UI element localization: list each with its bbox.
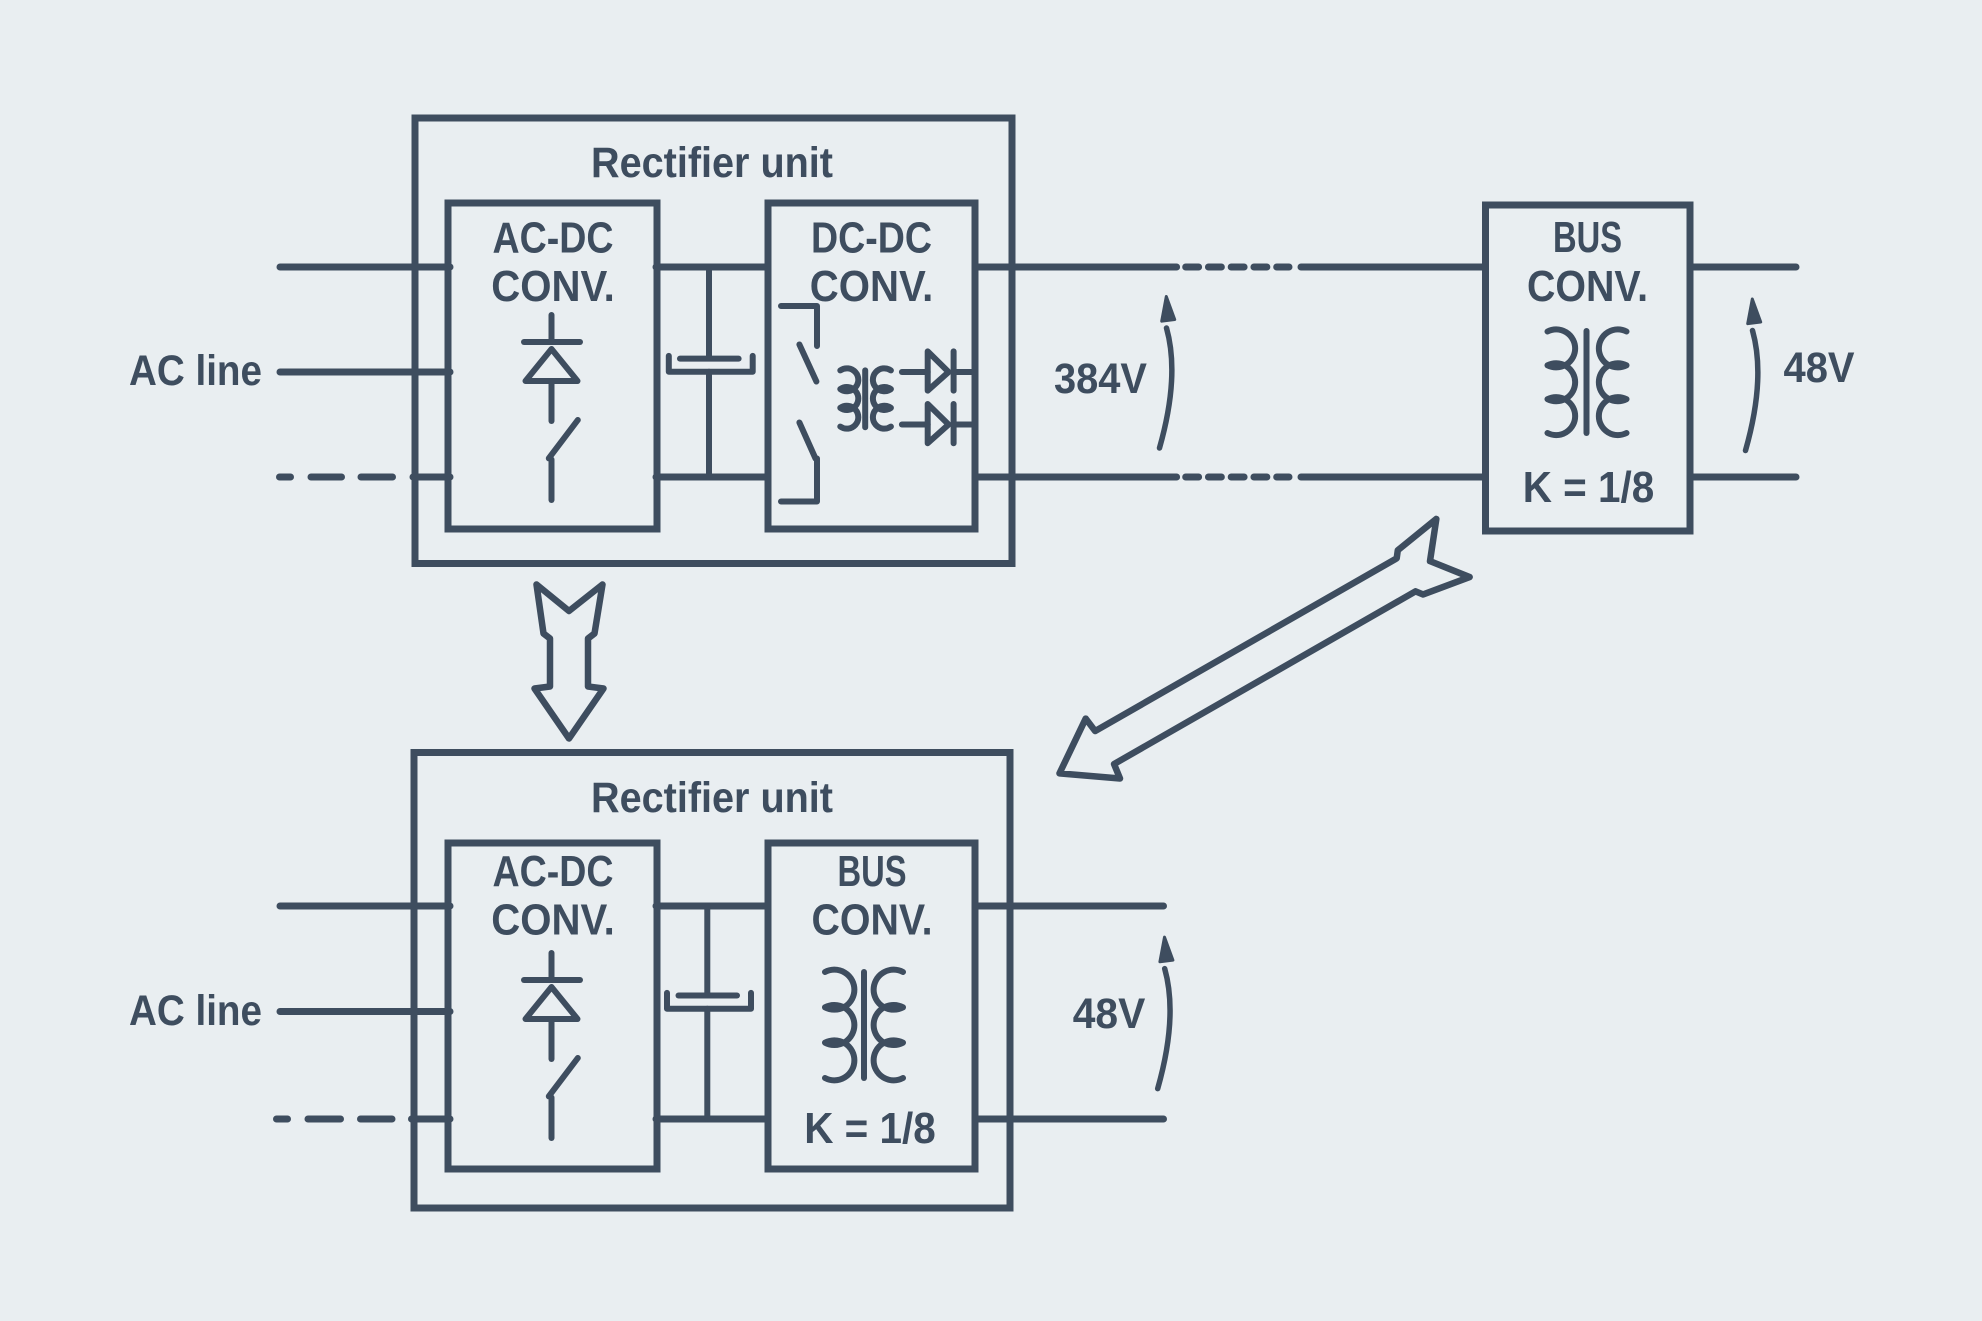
diode D1: triangle	[526, 349, 578, 381]
svg-text:48V: 48V	[1073, 990, 1146, 1038]
wire: 48V output bottom (top diagram)	[1690, 474, 1796, 481]
wire: DC link bottom (between converters, top)	[656, 474, 768, 481]
svg-text:384V: 384V	[1054, 355, 1147, 403]
svg-text:Rectifier unit: Rectifier unit	[591, 774, 833, 822]
wire: AC input phase 1 (bottom diagram)	[280, 903, 450, 910]
svg-text:K = 1/8: K = 1/8	[804, 1104, 936, 1153]
switch S4 blade (AC-DC bottom)	[549, 1058, 578, 1096]
diode D4: triangle	[526, 987, 578, 1019]
svg-text:CONV.: CONV.	[491, 262, 615, 311]
svg-text:AC-DC: AC-DC	[493, 847, 614, 896]
capacitor C1: lower wire	[706, 372, 712, 477]
box: DC-DC converter (top)	[768, 203, 975, 529]
diode D2: cathode lead	[954, 369, 972, 375]
wire: 48V output bottom (bottom diagram)	[975, 1116, 1164, 1123]
arrow: outline diagonal arrow from bus converter to bottom rectifier	[1042, 518, 1470, 803]
diode D3: cathode bar	[951, 404, 957, 443]
wire: 384V bus bottom to bus converter	[1301, 474, 1486, 481]
svg-text:Rectifier unit: Rectifier unit	[591, 139, 833, 187]
wire: DC link top (between converters, top)	[656, 264, 768, 271]
transformer T2 primary winding	[1548, 329, 1576, 435]
svg-text:CONV.: CONV.	[1527, 262, 1648, 311]
wire: 384V bus bottom dashed	[1186, 474, 1289, 481]
wire: DC link bottom (between converters, bottom)	[656, 1116, 768, 1123]
wire: AC input phase n dashed (bottom diagram)	[277, 1116, 451, 1123]
diode D2 (rectifier top): anode lead	[902, 369, 928, 375]
arrow: outline down arrow between rectifier units	[535, 585, 604, 739]
switch S2 upper lead with corner	[781, 306, 817, 346]
wire: 384V bus top to bus converter	[1301, 264, 1486, 271]
svg-text:BUS: BUS	[838, 847, 907, 896]
arrow: 384V voltage arrow	[1160, 297, 1175, 449]
diode D3: cathode lead	[954, 422, 972, 428]
wire: AC input phase 1 (top diagram)	[280, 264, 450, 271]
transformer T1 secondary winding	[873, 368, 891, 428]
wire: 384V bus top solid (top)	[975, 264, 1177, 271]
svg-text:K = 1/8: K = 1/8	[1523, 463, 1655, 512]
svg-text:DC-DC: DC-DC	[811, 214, 932, 263]
wire: 384V bus bottom solid (top)	[975, 474, 1177, 481]
arrow: 48V voltage arrow (top)	[1746, 299, 1761, 451]
diode D4 with switch (AC-DC bottom): top lead	[549, 953, 555, 979]
svg-text:AC line: AC line	[129, 347, 262, 395]
diode D1: cathode bar	[524, 339, 580, 345]
transformer T1 primary winding	[840, 368, 858, 428]
switch S3 lower lead with corner	[781, 459, 817, 502]
capacitor C2 (bottom): upper wire	[704, 906, 710, 993]
capacitor C1: top plate	[680, 356, 739, 362]
transformer T3 core	[861, 972, 867, 1078]
switch S1 blade (AC-DC top)	[549, 420, 578, 458]
transformer T3 primary winding	[825, 970, 854, 1081]
wire: diode to switch	[549, 383, 555, 421]
capacitor C2: bottom bracket plate	[667, 993, 751, 1009]
diode D3 (rectifier bottom): anode lead	[902, 422, 928, 428]
capacitor C1: bottom bracket plate	[669, 356, 753, 372]
transformer T2 secondary winding	[1599, 329, 1627, 435]
svg-text:CONV.: CONV.	[491, 896, 615, 945]
diode D3: triangle	[928, 404, 949, 443]
wire: 48V output top (top diagram)	[1690, 264, 1796, 271]
wire: DC link top (between converters, bottom)	[656, 903, 768, 910]
svg-text:BUS: BUS	[1553, 213, 1622, 262]
arrow: 48V voltage arrow (bottom)	[1158, 937, 1173, 1089]
diode D1 with switch (AC-DC top): top lead	[549, 315, 555, 341]
svg-text:CONV.: CONV.	[810, 262, 934, 311]
outer box: rectifier unit (top)	[415, 118, 1012, 564]
wire: switch lower lead	[549, 460, 555, 501]
wire: switch lower lead (bottom)	[549, 1098, 555, 1139]
wire: 384V bus top dashed	[1186, 264, 1289, 271]
svg-text:CONV.: CONV.	[812, 896, 933, 945]
diode D4: cathode bar	[524, 977, 580, 983]
transformer T2 core	[1584, 331, 1590, 433]
box: AC-DC converter (bottom)	[448, 843, 657, 1169]
box: BUS converter (top right)	[1486, 205, 1691, 531]
svg-text:AC-DC: AC-DC	[493, 214, 614, 263]
wire: diode to switch (bottom)	[549, 1021, 555, 1059]
diode D2: cathode bar	[951, 351, 957, 390]
svg-text:48V: 48V	[1784, 344, 1855, 392]
capacitor C1 (top): upper wire	[706, 267, 712, 356]
transformer T1 core	[862, 370, 868, 427]
transformer T3 secondary winding	[874, 970, 903, 1081]
outer box: rectifier unit (bottom)	[414, 753, 1010, 1209]
wire: AC input phase n dashed (top diagram)	[280, 474, 451, 481]
svg-text:AC line: AC line	[129, 987, 262, 1035]
capacitor C2: lower wire	[704, 1009, 710, 1119]
box: BUS converter (bottom)	[768, 843, 975, 1169]
switch S2 blade upper	[799, 345, 816, 382]
box: AC-DC converter (top)	[448, 203, 657, 529]
wire: 48V output top (bottom diagram)	[975, 903, 1164, 910]
capacitor C2: top plate	[679, 993, 738, 999]
switch S3 blade lower	[799, 423, 815, 459]
diode D2: triangle	[928, 351, 949, 390]
wire: AC input phase 2 (top diagram)	[280, 369, 450, 376]
wire: AC input phase 2 (bottom diagram)	[280, 1008, 450, 1015]
